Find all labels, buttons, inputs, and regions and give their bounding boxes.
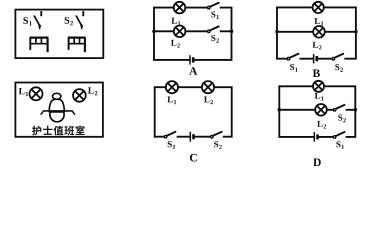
label option B — [313, 69, 320, 77]
label option D — [313, 158, 321, 166]
battery A — [190, 55, 193, 64]
label D L2 — [317, 121, 326, 129]
bed 2 — [68, 38, 86, 53]
junction B right-mid — [354, 30, 358, 34]
box: hospital ward room — [15, 10, 103, 59]
label C L2 — [204, 97, 213, 105]
label option A — [189, 67, 197, 75]
label C S2 — [214, 141, 222, 149]
wire: circuit D middle branch — [279, 109, 355, 111]
label B L1 — [314, 18, 323, 26]
junction D right-mid — [354, 108, 358, 112]
junction A left-mid — [152, 30, 156, 34]
switch D S2 — [333, 105, 345, 112]
junction D left-mid — [278, 108, 282, 112]
switch A S2 — [208, 26, 220, 33]
battery C — [190, 132, 193, 142]
switch B S1 — [287, 54, 299, 61]
lamp B L1 — [313, 2, 324, 13]
lamp A L1 — [174, 2, 186, 14]
label: nurse duty room text — [32, 126, 85, 136]
label B S1 — [290, 64, 298, 72]
lamp L1 (room) — [30, 87, 43, 100]
label A L2 — [171, 40, 180, 48]
wire: circuit A outer loop — [154, 8, 232, 60]
label B S2 — [335, 64, 343, 72]
wire: circuit B outer loop — [277, 7, 356, 58]
battery B — [314, 54, 317, 63]
wire: circuit C loop — [155, 87, 232, 137]
label D S1 — [336, 141, 344, 149]
label A S1 — [211, 11, 219, 19]
switch D S1 — [333, 132, 345, 139]
lamp C L1 — [166, 81, 178, 93]
label S2 (ward) — [65, 17, 73, 25]
label L1 (room) — [19, 88, 28, 96]
label A L1 — [171, 18, 180, 26]
bed 1 — [30, 38, 49, 53]
label S1 (ward) — [23, 17, 31, 25]
junction B left-mid — [275, 30, 279, 34]
label A S2 — [211, 35, 219, 43]
switch S1 (call button) — [34, 11, 41, 29]
switch S2 (call button) — [76, 11, 83, 29]
lamp C L2 — [202, 81, 214, 93]
label D S2 — [338, 115, 346, 123]
label C S1 — [168, 141, 176, 149]
label option C — [190, 154, 197, 162]
wire: circuit A middle branch — [154, 30, 232, 32]
box: nurse duty room — [15, 83, 103, 137]
switch A S1 — [208, 3, 220, 10]
lamp L2 (room) — [73, 89, 86, 102]
switch C S1 — [164, 132, 176, 139]
nurse figure — [41, 93, 75, 121]
label D L1 — [315, 93, 324, 101]
switch B S2 — [332, 54, 344, 61]
wire: circuit D outer loop — [279, 86, 355, 137]
junction A right-mid — [230, 30, 234, 34]
label L2 (room) — [88, 87, 97, 95]
label B L2 — [313, 42, 322, 50]
battery D — [314, 132, 317, 142]
lamp B L2 — [313, 26, 325, 38]
lamp A L2 — [174, 26, 186, 38]
lamp D L2 — [315, 104, 327, 116]
label C L1 — [167, 97, 176, 105]
switch C S2 — [211, 132, 223, 139]
wire: circuit B middle branch — [277, 31, 356, 33]
lamp D L1 — [313, 81, 324, 92]
